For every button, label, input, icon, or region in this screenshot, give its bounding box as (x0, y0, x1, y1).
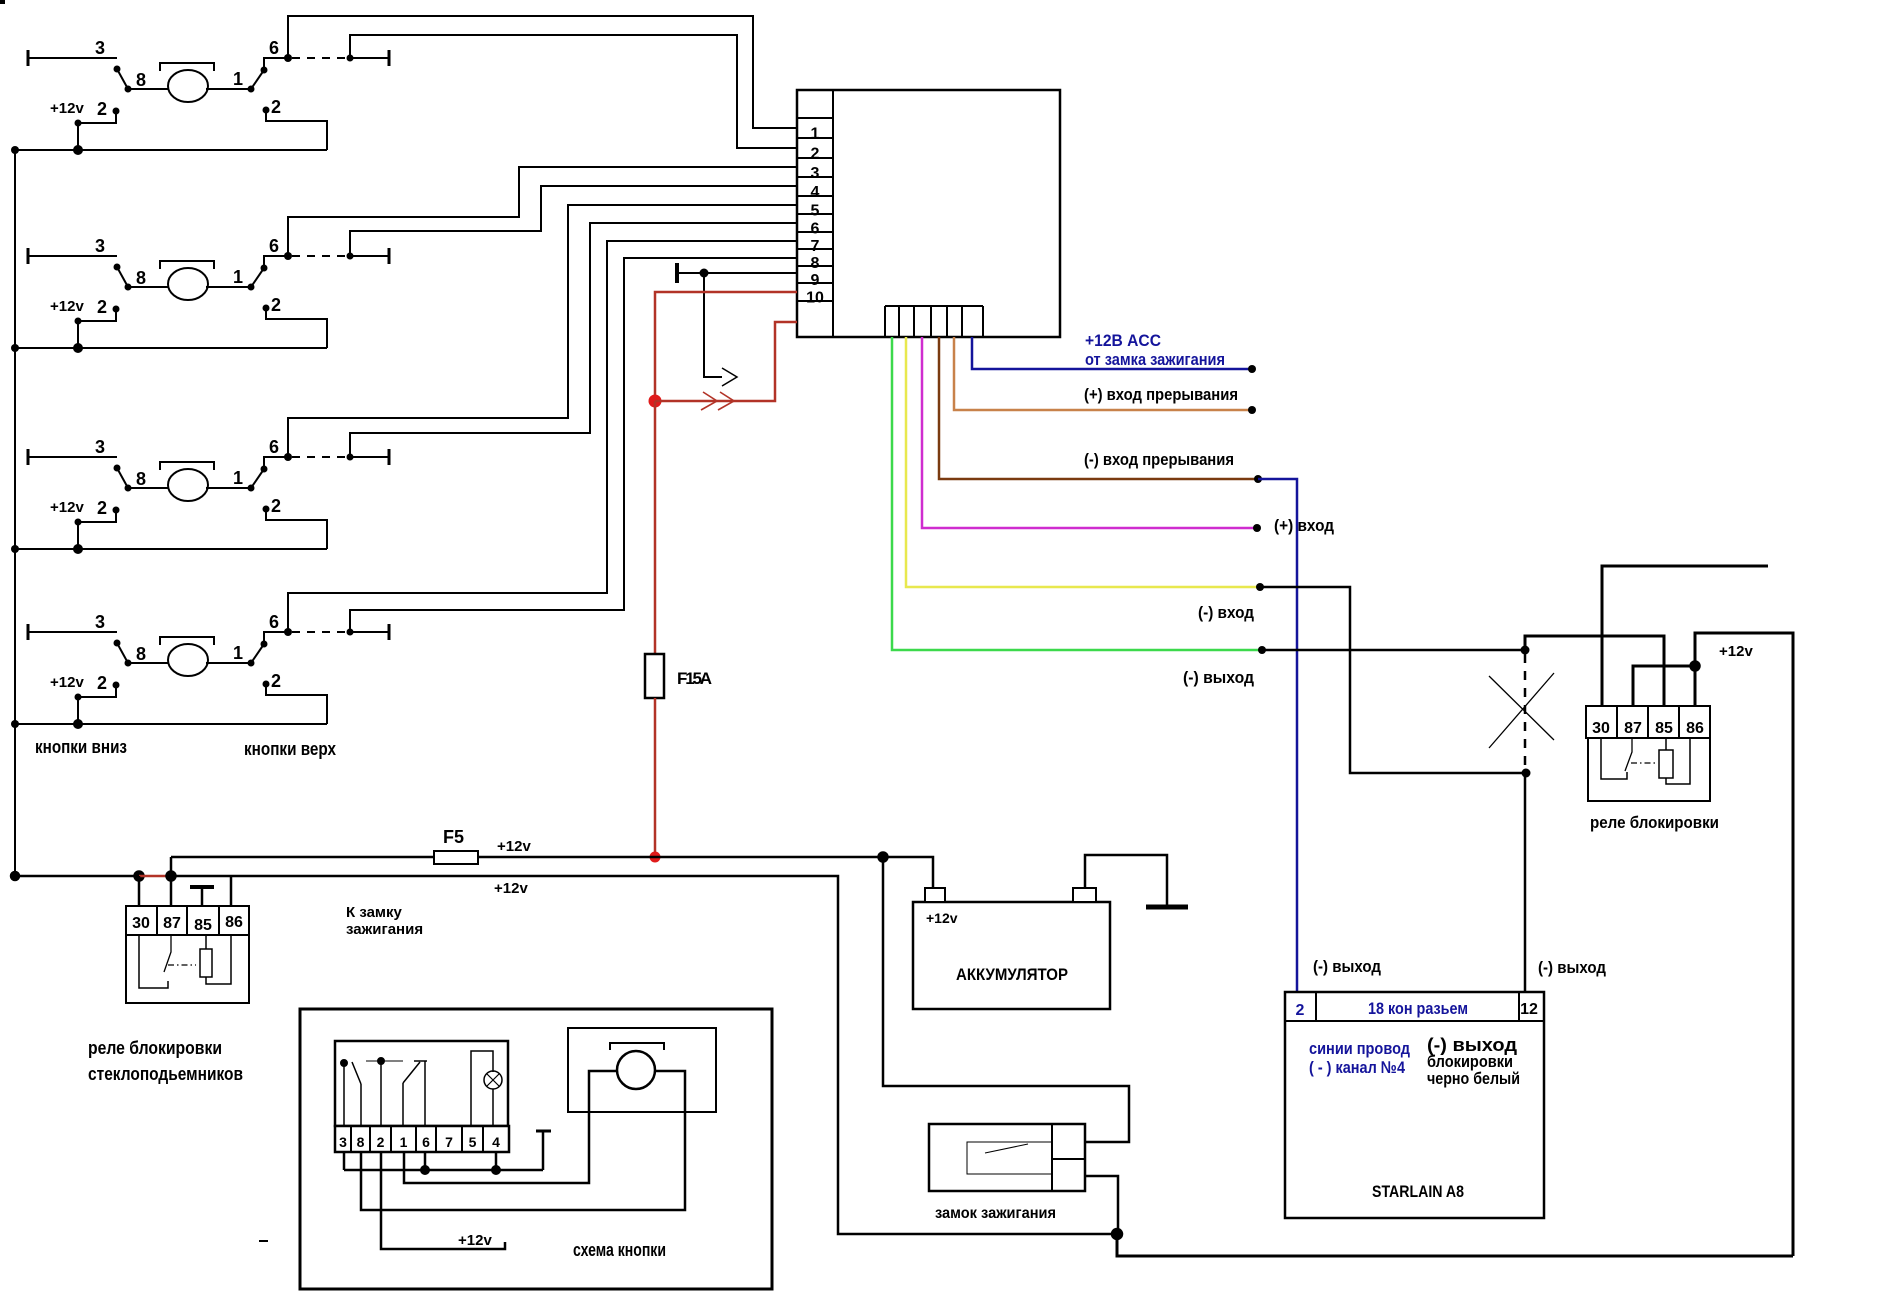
wire pin 8 to motor right (361, 1071, 685, 1210)
switch unit 2 right terminal bar (388, 248, 391, 264)
svg-text:86: 86 (225, 914, 243, 931)
switch unit 2 contact 3 dot (114, 264, 121, 271)
ignition connector divider horizontal (1052, 1158, 1085, 1160)
red junction dot on F5 wire (650, 852, 661, 863)
switch unit 1 +12v rail wire (15, 149, 327, 151)
relay1 coil wire to 85 (205, 935, 207, 949)
svg-text:кнопки вниз: кнопки вниз (35, 737, 127, 757)
svg-text:1: 1 (233, 643, 243, 663)
module pin cell divider 9 (797, 265, 833, 267)
wire unit3 node6 to module pin 5 (288, 205, 797, 457)
switch unit 1 contact 2 right dot (263, 107, 270, 114)
wire relay pin 30 top (1602, 566, 1768, 706)
switch unit 2 wire contact 2 left to +12v node (78, 309, 116, 321)
svg-text:6: 6 (269, 612, 279, 632)
svg-text:+12v: +12v (497, 838, 531, 855)
button common bar (366, 1060, 403, 1062)
dashed link wire with X (1524, 654, 1527, 769)
wire end dot (1248, 406, 1256, 414)
switch unit 4 +12v rail wire (15, 723, 327, 725)
switch unit 3 rail left dot (11, 545, 19, 553)
arrow head (722, 368, 737, 386)
wire ignition lower pin (1085, 1176, 1118, 1234)
relay2 coil wire to 86 (1666, 738, 1690, 784)
svg-text:зажигания: зажигания (346, 921, 423, 938)
switch unit 2 contact 1 dot (248, 284, 255, 291)
module pin column divider (832, 90, 834, 337)
stub terminal riser (542, 1131, 545, 1170)
svg-text:(-) выход: (-) выход (1183, 668, 1254, 687)
svg-text:2: 2 (97, 498, 107, 518)
button contact 6 line (424, 1061, 426, 1126)
switch unit 4 contact 1 dot (248, 660, 255, 667)
svg-text:8: 8 (811, 255, 820, 272)
svg-text:6: 6 (811, 221, 820, 238)
switch unit 2 rail junction dot (73, 343, 83, 353)
switch unit 2 contact 6 dot (261, 265, 268, 272)
svg-text:7: 7 (445, 1134, 453, 1150)
switch unit 1 wire contact 2 left to +12v node (78, 111, 116, 123)
svg-text:реле блокировки: реле блокировки (88, 1038, 222, 1058)
switch unit 2 wire +12v node down (77, 321, 79, 348)
svg-text:3: 3 (95, 38, 105, 58)
battery plus terminal (925, 888, 945, 902)
junction dot pin6 (421, 1166, 429, 1174)
module pin cell divider 10 (797, 282, 833, 284)
switch unit 2 wire contact 6 up (264, 256, 288, 268)
module pin cell divider 8 (797, 248, 833, 250)
switch unit 1 wire to right bar (350, 57, 389, 59)
switch unit 4 node 6 junction (284, 628, 292, 636)
svg-text:К замку: К замку (346, 904, 403, 921)
switch unit 1 contact 2 left dot (113, 108, 120, 115)
switch unit 1 right terminal bar (388, 50, 391, 66)
switch unit 1 motor (168, 70, 208, 102)
switch unit 1 node 6 junction (284, 54, 292, 62)
wire (-) вход прерывания dark brown (939, 337, 1258, 479)
red wire arrow marks (701, 392, 734, 410)
X cancel mark (1489, 673, 1554, 748)
button motor box (568, 1028, 716, 1112)
switch unit 2 +12v rail wire (15, 347, 327, 349)
red junction dot (649, 395, 662, 408)
switch unit 3 contact 3 dot (114, 465, 121, 472)
button blade 3-8 (352, 1062, 361, 1084)
module pin cell divider 11 (797, 300, 833, 302)
wire end dot (1248, 365, 1256, 373)
svg-text:+12v: +12v (50, 100, 84, 117)
svg-text:18 кон разьем: 18 кон разьем (1368, 999, 1468, 1018)
switch unit 2 switch blade 3-8 (117, 267, 128, 287)
switch unit 2 wire contact 2 right to rail (266, 308, 327, 348)
switch unit 3 wire from terminal 3 (28, 456, 117, 458)
switch unit 4 wire from terminal 3 (28, 631, 117, 633)
switch unit 1 wire from terminal 3 (28, 57, 117, 59)
battery box (913, 902, 1110, 1009)
svg-text:1: 1 (233, 468, 243, 488)
wire pin9 (677, 272, 797, 274)
relay2 coil (1659, 750, 1673, 778)
red wire below fuse (654, 698, 657, 857)
switch unit 3 contact 1 dot (248, 485, 255, 492)
switch unit 3 wire contact 6 up (264, 457, 288, 469)
switch unit 2 terminal 3 bar (27, 248, 30, 264)
switch unit 4 wire motor to contact 1 (206, 662, 251, 664)
svg-text:6: 6 (269, 437, 279, 457)
svg-text:1: 1 (233, 69, 243, 89)
switch unit 3 switch blade 1-6 (251, 469, 264, 488)
switch unit 1 contact 8 dot (125, 86, 132, 93)
junction dot (1256, 583, 1264, 591)
module pin cell divider 2 (797, 137, 833, 139)
relay1 body box (126, 935, 249, 1003)
svg-text:86: 86 (1686, 720, 1704, 737)
switch unit 3 contact 6 dot (261, 466, 268, 473)
svg-text:12: 12 (1520, 1001, 1538, 1018)
svg-text:+12v: +12v (926, 910, 958, 926)
svg-text:8: 8 (357, 1134, 365, 1150)
button lamp to pin 4 (492, 1089, 494, 1126)
module bottom connector top edge (885, 305, 983, 307)
switch unit 3 switch blade 3-8 (117, 468, 128, 488)
svg-text:F15A: F15A (677, 669, 712, 688)
switch unit 3 right terminal bar (388, 449, 391, 465)
wire unit3 dashed-node to module pin 6 (350, 223, 797, 457)
wire module pin 10 red (655, 292, 797, 401)
svg-text:F5: F5 (443, 827, 464, 847)
switch unit 1 contact 6 dot (261, 67, 268, 74)
pin9 terminal bar (675, 263, 679, 283)
module pin cell divider 4 (797, 176, 833, 178)
relay2 coil wire to 85 (1665, 738, 1667, 750)
left bus bottom dot (11, 872, 19, 880)
svg-text:85: 85 (1655, 720, 1673, 737)
wire battery minus to ground (1085, 855, 1167, 905)
button scheme outer box (300, 1009, 772, 1289)
relay2 pin dividers (1617, 706, 1679, 738)
wire F5 feed left segment (171, 856, 434, 859)
svg-text:STARLAIN A8: STARLAIN A8 (1372, 1182, 1464, 1201)
relay1 contact 30 leg (139, 935, 168, 988)
button contact 6 tick (414, 1060, 427, 1062)
svg-text:от замка зажигания: от замка зажигания (1085, 350, 1225, 369)
wire pin 4 down (495, 1152, 498, 1170)
switch unit 3 contact 2 right dot (263, 506, 270, 513)
relay2 pin row box (1586, 706, 1710, 738)
switch unit 1 terminal 3 bar (27, 50, 30, 66)
switch unit 1 contact 3 dot (114, 66, 121, 73)
bottom wire to +12v right riser (1117, 1234, 1793, 1256)
red jumper segment (139, 875, 171, 878)
switch unit 4 motor (168, 644, 208, 676)
switch unit 2 contact 8 dot (125, 284, 132, 291)
wire green node to relay pin 85 (1525, 636, 1664, 706)
switch unit 1 dashed link end dot (347, 55, 354, 62)
battery junction dot (879, 853, 888, 862)
button contact 2 dot (378, 1058, 384, 1064)
junction dot pin4 (492, 1166, 500, 1174)
switch unit 2 contact 2 left dot (113, 306, 120, 313)
switch unit 3 contact 2 left dot (113, 507, 120, 514)
wire F5 to battery plus (478, 857, 933, 888)
svg-text:кнопки верх: кнопки верх (244, 739, 336, 759)
wire unit2 dashed-node to module pin 4 (350, 186, 797, 256)
switch unit 3 motor (168, 469, 208, 501)
bottom feed wire to ignition branch (171, 876, 1117, 1234)
svg-text:+12В ACC: +12В ACC (1085, 331, 1161, 350)
junction dot (1258, 646, 1266, 654)
svg-text:2: 2 (377, 1134, 385, 1150)
svg-text:8: 8 (136, 644, 146, 664)
svg-text:схема кнопки: схема кнопки (573, 1240, 666, 1260)
svg-text:2: 2 (271, 97, 281, 117)
svg-text:5: 5 (469, 1134, 477, 1150)
svg-text:1: 1 (400, 1134, 408, 1150)
switch unit 1 switch blade 1-6 (251, 70, 264, 89)
switch unit 1 wire motor to contact 1 (206, 88, 251, 90)
svg-text:1: 1 (233, 267, 243, 287)
switch unit 3 wire 8 to motor (128, 487, 170, 489)
svg-text:замок зажигания: замок зажигания (935, 1205, 1056, 1222)
battery minus terminal (1073, 888, 1096, 902)
relay1 actuator dash-dot (168, 964, 196, 966)
switch unit 2 +12v node dot (75, 318, 82, 325)
button lamp cross (487, 1074, 499, 1086)
switch unit 4 switch blade 1-6 (251, 644, 264, 663)
svg-text:87: 87 (163, 915, 181, 932)
button unit upper box (335, 1041, 508, 1126)
junction dot (1521, 646, 1530, 655)
svg-text:8: 8 (136, 268, 146, 288)
switch unit 4 rail left dot (11, 720, 19, 728)
switch unit 4 wire +12v node down (77, 697, 79, 724)
junction dot relay1 pin87 (167, 872, 176, 881)
switch unit 3 +12v rail wire (15, 548, 327, 550)
ignition connector divider vertical (1051, 1124, 1053, 1191)
wire unit1 node6 to module pin 1 (288, 16, 797, 128)
svg-text:АККУМУЛЯТОР: АККУМУЛЯТОР (956, 965, 1068, 984)
svg-text:2: 2 (1296, 1002, 1305, 1019)
switch unit 3 motor bracket (160, 462, 214, 470)
svg-text:3: 3 (811, 165, 820, 182)
svg-text:8: 8 (136, 469, 146, 489)
svg-text:(-) вход прерывания: (-) вход прерывания (1084, 450, 1234, 469)
ignition lock box (929, 1124, 1085, 1191)
wire unit4 dashed-node to module pin 8 (350, 258, 797, 632)
switch unit 1 +12v node dot (75, 120, 82, 127)
switch unit 2 wire to right bar (350, 255, 389, 257)
relay2 switch blade (1625, 738, 1632, 771)
svg-text:30: 30 (1592, 720, 1610, 737)
svg-text:( - ) канал №4: ( - ) канал №4 (1309, 1058, 1405, 1077)
small dash mark (259, 1240, 268, 1242)
switch unit 1 rail left dot (11, 146, 19, 154)
svg-text:87: 87 (1624, 720, 1642, 737)
switch unit 4 +12v node dot (75, 694, 82, 701)
switch unit 1 dashed link wire (292, 57, 348, 59)
STARLAIN box (1285, 992, 1544, 1218)
wire +12v feed to 86 and down right (1695, 633, 1793, 1256)
svg-text:+12v: +12v (458, 1232, 492, 1249)
svg-text:5: 5 (811, 203, 820, 220)
switch unit 4 contact 3 dot (114, 640, 121, 647)
svg-text:8: 8 (136, 70, 146, 90)
fuse F5 (434, 851, 478, 864)
switch unit 2 wire 8 to motor (128, 286, 170, 288)
relay2 contact 30 leg (1601, 738, 1627, 779)
wire +12B ACC blue (972, 337, 1252, 369)
switch unit 1 wire +12v node down (77, 123, 79, 150)
wire blue continuation to STARLAIN pin 2 (1258, 479, 1297, 992)
switch unit 1 wire 8 to motor (128, 88, 170, 90)
svg-text:9: 9 (811, 272, 820, 289)
wire pin 3 down (343, 1152, 346, 1170)
button lamp (484, 1071, 502, 1089)
switch unit 2 dashed link end dot (347, 253, 354, 260)
svg-text:реле блокировки: реле блокировки (1590, 813, 1719, 832)
wire unit1 dashed-node to module pin 2 (350, 35, 797, 148)
switch unit 4 terminal 3 bar (27, 624, 30, 640)
svg-text:6: 6 (269, 236, 279, 256)
switch unit 4 wire contact 2 right to rail (266, 684, 327, 724)
button pin row dividers (351, 1126, 483, 1152)
module bottom connector divider x=947 (946, 306, 948, 337)
relay2 body box (1588, 738, 1710, 801)
switch unit 3 dashed link wire (292, 456, 348, 458)
module bottom connector divider x=914 (913, 306, 915, 337)
svg-text:2: 2 (271, 496, 281, 516)
switch unit 3 contact 8 dot (125, 485, 132, 492)
button motor circle (617, 1051, 655, 1089)
svg-text:7: 7 (811, 238, 820, 255)
module pin cell divider 7 (797, 231, 833, 233)
junction dot (1522, 769, 1531, 778)
svg-text:3: 3 (95, 612, 105, 632)
svg-text:(+) вход прерывания: (+) вход прерывания (1084, 385, 1238, 404)
button motor bracket (610, 1043, 664, 1050)
module bottom connector divider x=899 (898, 306, 900, 337)
switch unit 1 switch blade 3-8 (117, 69, 128, 89)
switch unit 4 wire contact 6 up (264, 632, 288, 644)
svg-text:3: 3 (339, 1134, 347, 1150)
relay1 coil wire to 86 (206, 935, 231, 984)
switch unit 4 rail junction dot (73, 719, 83, 729)
switch unit 2 wire from terminal 3 (28, 255, 117, 257)
svg-text:2: 2 (271, 671, 281, 691)
button contact 3 dot (341, 1060, 347, 1066)
switch unit 1 rail junction dot (73, 145, 83, 155)
switch unit 4 contact 2 right dot (263, 681, 270, 688)
switch unit 1 wire contact 2 right to rail (266, 110, 327, 150)
wire (-) выход black continuation (1262, 649, 1525, 652)
module pin cell divider 1 (797, 117, 833, 119)
stub terminal bar (536, 1130, 551, 1133)
wire end dot (1253, 524, 1261, 532)
wire (-) вход black continuation (1260, 587, 1526, 773)
module bottom connector divider x=885 (884, 306, 886, 337)
switch unit 4 dashed link wire (292, 631, 348, 633)
switch unit 1 wire contact 6 up (264, 58, 288, 70)
switch unit 2 rail left dot (11, 344, 19, 352)
relay2 actuator dash-dot (1631, 762, 1657, 764)
button lamp feed from 5 (471, 1051, 493, 1126)
switch unit 3 +12v node dot (75, 519, 82, 526)
relay1 switch blade (164, 935, 171, 972)
module U1 main box (797, 90, 1060, 337)
svg-text:3: 3 (95, 437, 105, 457)
relay1 pin row box (126, 906, 249, 935)
wire (+) вход прерывания orange (954, 337, 1252, 410)
svg-text:(+) вход: (+) вход (1274, 516, 1334, 535)
wire (-) выход green (892, 337, 1262, 650)
wire (+) вход magenta (922, 337, 1257, 528)
switch unit 3 wire +12v node down (77, 522, 79, 549)
svg-text:(-) вход: (-) вход (1198, 603, 1254, 622)
module bottom connector divider x=931 (930, 306, 932, 337)
svg-text:+12v: +12v (1719, 643, 1753, 660)
switch unit 2 motor bracket (160, 261, 214, 269)
wire (-) вход yellow (906, 337, 1260, 587)
switch unit 1 contact 1 dot (248, 86, 255, 93)
svg-text:4: 4 (492, 1134, 500, 1150)
svg-text:+12v: +12v (50, 499, 84, 516)
pin9 junction dot (700, 269, 709, 278)
svg-text:1: 1 (811, 126, 820, 143)
junction dot relay1 pin30 (135, 872, 144, 881)
wire pin 1 to motor left (404, 1071, 617, 1183)
svg-text:3: 3 (95, 236, 105, 256)
switch unit 1 motor bracket (160, 63, 214, 71)
ignition lever (985, 1144, 1028, 1153)
svg-text:10: 10 (806, 290, 824, 307)
module pin cell divider 3 (797, 157, 833, 159)
relay1 pin dividers (157, 906, 219, 935)
switch unit 3 wire contact 2 left to +12v node (78, 510, 116, 522)
svg-text:+12v: +12v (50, 674, 84, 691)
switch unit 4 wire to right bar (350, 631, 389, 633)
svg-text:4: 4 (811, 184, 820, 201)
wire pin 6 down (424, 1152, 427, 1170)
switch unit 3 wire contact 2 right to rail (266, 509, 327, 549)
switch unit 3 rail junction dot (73, 544, 83, 554)
wire unit2 node6 to module pin 3 (288, 167, 797, 256)
switch unit 3 terminal 3 bar (27, 449, 30, 465)
svg-text:2: 2 (97, 297, 107, 317)
wire STARLAIN pin 12 up (1524, 773, 1527, 992)
wire relay1 pin 86 (230, 876, 233, 906)
fuse F15A (645, 654, 664, 698)
svg-text:(-) выход: (-) выход (1313, 957, 1381, 976)
switch unit 3 wire to right bar (350, 456, 389, 458)
STARLAIN header divider pin2 (1315, 992, 1317, 1021)
switch unit 4 motor bracket (160, 637, 214, 645)
switch unit 2 node 6 junction (284, 252, 292, 260)
svg-text:2: 2 (97, 673, 107, 693)
switch unit 4 contact 2 left dot (113, 682, 120, 689)
wire pin 2 +12v stub (381, 1152, 505, 1249)
svg-text:2: 2 (811, 146, 820, 163)
svg-text:6: 6 (269, 38, 279, 58)
svg-text:стеклоподьемников: стеклоподьемников (88, 1064, 243, 1084)
far left vertical bus wire (14, 150, 16, 876)
wire common node 1170 (344, 1169, 543, 1172)
relay1 pin 85 stub bar (190, 885, 214, 889)
module pin cell divider 6 (797, 213, 833, 215)
svg-text:синии провод: синии провод (1309, 1039, 1410, 1058)
relay1 pin 85 stub (201, 887, 204, 906)
wire ignition feed upper (883, 857, 1129, 1142)
button contact 8 line (360, 1084, 362, 1126)
